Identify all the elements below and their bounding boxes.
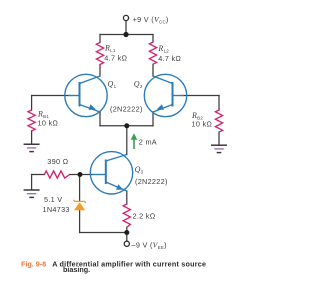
svg-text:Fig. 9-8: Fig. 9-8 [21,259,46,268]
svg-text:(2N2222): (2N2222) [135,177,168,186]
svg-text:1N4733: 1N4733 [43,205,70,214]
svg-text:biasing.: biasing. [63,265,90,274]
svg-text:2.2 kΩ: 2.2 kΩ [133,212,156,221]
svg-text:(2N2222): (2N2222) [110,105,143,114]
svg-text:5.1 V: 5.1 V [44,195,62,204]
svg-text:10 kΩ: 10 kΩ [38,118,59,127]
svg-text:390 Ω: 390 Ω [47,157,68,166]
svg-text:10 kΩ: 10 kΩ [192,120,213,129]
svg-text:2 mA: 2 mA [139,138,157,147]
svg-text:4.7 kΩ: 4.7 kΩ [158,54,181,63]
svg-text:4.7 kΩ: 4.7 kΩ [104,54,127,63]
